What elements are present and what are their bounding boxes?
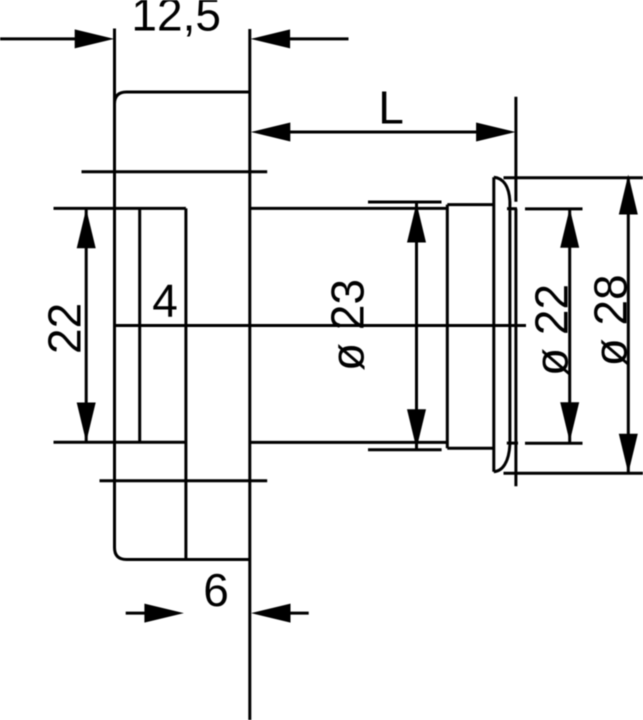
6 dim line left tail xyxy=(126,612,146,615)
arrow 12,5 left xyxy=(75,29,115,48)
upper cross line on flange xyxy=(82,170,268,173)
o22 top extension xyxy=(525,207,583,210)
center axis line xyxy=(115,324,527,327)
flange left edge / extension line xyxy=(113,29,116,548)
arrow o22 bottom xyxy=(560,402,579,442)
12,5 dim line left tail xyxy=(0,37,76,40)
slot top line (22 top extension) xyxy=(54,207,186,210)
flare lip line lower xyxy=(514,209,517,487)
arrow L right xyxy=(476,123,515,142)
arrow 12,5 right xyxy=(251,29,291,48)
slot inner line left xyxy=(138,208,141,442)
o23 bottom extension xyxy=(368,448,442,451)
arrow 6 right xyxy=(251,604,291,623)
bead top arc xyxy=(494,177,510,201)
arrow 6 left xyxy=(144,604,184,623)
L dim line xyxy=(290,131,477,134)
svg-text:6: 6 xyxy=(203,564,229,616)
12,5 dim line right tail xyxy=(290,37,349,40)
svg-text:22: 22 xyxy=(38,303,90,354)
22 dim line xyxy=(85,209,88,442)
svg-text:4: 4 xyxy=(152,275,178,327)
bead right silhouette xyxy=(508,201,511,444)
collar top edge xyxy=(447,203,494,206)
arrow o23 top xyxy=(407,203,426,243)
svg-text:ø 23: ø 23 xyxy=(321,279,373,371)
o28 dim line xyxy=(627,178,630,473)
svg-text:12,5: 12,5 xyxy=(131,0,221,41)
bead left edge xyxy=(492,177,495,472)
bead bottom arc xyxy=(494,444,510,472)
arrow 22 bottom xyxy=(77,403,96,443)
svg-text:ø 28: ø 28 xyxy=(585,274,637,366)
flange top edge with rounded corner xyxy=(115,92,250,104)
arrow o22 top xyxy=(560,208,579,248)
arrow 22 top xyxy=(77,209,96,249)
o28 bottom extension xyxy=(504,472,643,475)
lower cross line on flange xyxy=(100,479,268,482)
flare face top edge tick xyxy=(507,207,517,210)
flare face bottom edge tick xyxy=(507,442,518,445)
o22 bottom extension xyxy=(525,442,583,445)
tube bottom edge xyxy=(250,441,447,444)
svg-text:L: L xyxy=(378,82,404,134)
o23 top extension xyxy=(368,201,442,204)
svg-text:ø 22: ø 22 xyxy=(526,284,578,376)
collar left edge xyxy=(446,205,449,449)
flare lip line upper (L right extension) xyxy=(514,97,517,202)
arrow L left xyxy=(251,123,290,142)
o23 dim line xyxy=(415,203,418,449)
o22 dim line xyxy=(568,209,571,443)
arrow o28 bottom xyxy=(619,434,638,474)
arrow o28 top xyxy=(619,175,638,215)
flange bottom edge with rounded corner xyxy=(115,548,250,560)
o28 top extension xyxy=(504,176,643,179)
slot inner line right (4 slot) xyxy=(184,208,187,559)
slot bottom line (22 bottom extension) xyxy=(54,441,186,444)
arrow o23 bottom xyxy=(407,409,426,449)
6 dim line right tail xyxy=(290,612,309,615)
tube top edge xyxy=(250,207,447,210)
flange right edge / centerline extension (full height) xyxy=(248,29,251,720)
collar bottom edge xyxy=(447,447,494,450)
